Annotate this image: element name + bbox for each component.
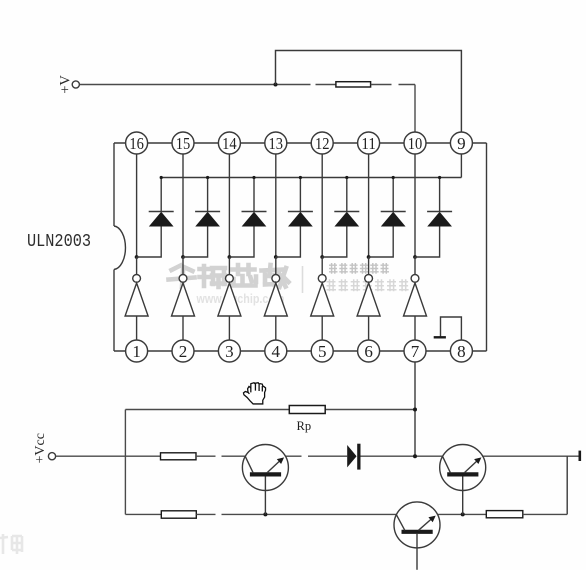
wire inverter input to pin ch7 — [414, 316, 416, 340]
inverter U3 triangle — [218, 283, 241, 316]
pin 13 — [265, 132, 287, 154]
pin 14 — [218, 132, 240, 154]
left vertical wire — [124, 410, 126, 515]
channel 3 pin drop wire — [228, 154, 230, 257]
svg-text:10: 10 — [408, 134, 423, 153]
svg-text:2: 2 — [179, 342, 188, 361]
watermark small caption 1 — [329, 263, 389, 274]
wire drop to pin 10 — [414, 85, 416, 133]
wire inverter input to pin ch3 — [228, 316, 230, 340]
svg-text:3: 3 — [225, 342, 234, 361]
middle rail: Vcc to R2 — [56, 455, 161, 457]
+Vcc terminal — [48, 453, 55, 460]
pin 7 — [404, 340, 426, 362]
diode D1 — [149, 178, 174, 227]
inverter U3 bubble — [226, 275, 234, 283]
inverter U6 bubble — [365, 275, 373, 283]
node junction ch6 — [367, 255, 371, 259]
transistor Q1 — [242, 445, 288, 515]
watermark bottom-left glyph — [0, 534, 22, 554]
bus junction dot ch7 — [438, 176, 441, 179]
watermark divider — [302, 266, 304, 293]
svg-text:8: 8 — [457, 342, 466, 361]
inverter U5 triangle — [311, 283, 334, 316]
svg-text:15: 15 — [176, 134, 191, 153]
bottom rail: R3 to Q3 — [196, 513, 215, 515]
IC notch — [114, 226, 125, 270]
wire pin 7 drop — [414, 362, 416, 456]
inverter U1 triangle — [125, 283, 148, 316]
wire jog to diode D5 — [322, 226, 347, 257]
resistor R3 — [161, 511, 196, 518]
wire inverter input to pin ch6 — [368, 316, 370, 340]
pin 11 — [358, 132, 380, 154]
inverter U7 bubble — [411, 275, 419, 283]
svg-text:16: 16 — [129, 134, 144, 153]
wire jog to diode D3 — [229, 226, 254, 257]
junction bottom rail / Q2 base — [461, 512, 465, 516]
svg-text:12: 12 — [315, 134, 330, 153]
+V terminal — [72, 81, 79, 88]
IC ULN2003 body outline — [114, 143, 487, 351]
bottom rail: R4 to right vertical — [523, 513, 567, 515]
junction bottom rail / Q1 base — [263, 512, 267, 516]
resistor R2 — [161, 453, 197, 460]
pin 2 — [172, 340, 194, 362]
svg-text:5: 5 — [318, 342, 327, 361]
inverter U1 bubble — [133, 275, 141, 283]
ground wire bracket pin 8 — [441, 317, 462, 340]
transistor Q2 — [440, 445, 486, 515]
node junction ch3 — [228, 255, 232, 259]
node junction ch1 — [135, 255, 139, 259]
svg-text:ULN2003: ULN2003 — [27, 231, 91, 252]
wire jog to diode D4 — [276, 226, 301, 257]
channel 2 pin drop wire — [182, 154, 184, 257]
channel 1 pin drop wire — [136, 154, 138, 257]
wire segment junction to resistor — [276, 84, 311, 86]
svg-text:13: 13 — [269, 134, 284, 153]
wire resistor to pin10 drop — [371, 84, 392, 86]
watermark brand glyphs — [169, 265, 289, 287]
bottom rail: Q3 to R4 — [437, 513, 486, 515]
inverter U6 triangle — [357, 283, 380, 316]
svg-text:4: 4 — [272, 342, 281, 361]
wire junction to inverter bubble ch2 — [182, 257, 184, 275]
bottom rail: left vertical to R3 — [125, 513, 161, 515]
right vertical wire — [566, 456, 568, 514]
bus junction dot ch3 — [252, 176, 255, 179]
diode D8 — [347, 444, 360, 470]
hand cursor — [243, 383, 265, 404]
svg-text:11: 11 — [361, 134, 376, 153]
wire inverter input to pin ch4 — [275, 316, 277, 340]
wire inverter input to pin ch5 — [321, 316, 323, 340]
diode D4 — [288, 178, 313, 227]
inverter U2 bubble — [179, 275, 187, 283]
pin 10 — [404, 132, 426, 154]
bus junction dot ch6 — [392, 176, 395, 179]
svg-text:9: 9 — [457, 134, 466, 153]
pin 8 — [450, 340, 472, 362]
svg-text:6: 6 — [364, 342, 373, 361]
pin 6 — [358, 340, 380, 362]
pin 12 — [311, 132, 333, 154]
wire bus to pin 9 — [460, 154, 462, 178]
junction at +V rail — [274, 83, 278, 87]
COM bus wire — [161, 177, 461, 179]
bus junction dot ch5 — [345, 176, 348, 179]
svg-text:14: 14 — [222, 134, 237, 153]
wire junction to inverter bubble ch1 — [136, 257, 138, 275]
diode D3 — [242, 178, 267, 227]
channel 4 pin drop wire — [275, 154, 277, 257]
wire junction to inverter bubble ch5 — [321, 257, 323, 275]
junction Rp rail / pin7 drop — [413, 408, 417, 412]
middle rail: D8 to junction to Q2 — [361, 455, 444, 457]
diode D2 — [195, 178, 220, 227]
diode D6 — [381, 178, 406, 227]
inverter U7 triangle — [404, 283, 427, 316]
pin 4 — [265, 340, 287, 362]
watermark small caption 2 — [327, 279, 409, 291]
inverter U4 triangle — [264, 283, 287, 316]
channel 5 pin drop wire — [321, 154, 323, 257]
wire inverter input to pin ch2 — [182, 316, 184, 340]
resistor R4 — [486, 511, 523, 518]
inverter U2 triangle — [172, 283, 195, 316]
wire jog to diode D2 — [183, 226, 208, 257]
pin 15 — [172, 132, 194, 154]
wire junction to inverter bubble ch4 — [275, 257, 277, 275]
pin 3 — [218, 340, 240, 362]
svg-text:1: 1 — [132, 342, 141, 361]
bus junction dot ch1 — [160, 176, 163, 179]
svg-text:+V: +V — [57, 75, 73, 94]
middle rail: Q2 to output terminal — [482, 455, 580, 457]
pin 1 — [126, 340, 148, 362]
middle rail: R2 to Q1 — [196, 455, 216, 457]
resistor R-top — [336, 82, 371, 87]
output terminal bar — [578, 451, 581, 461]
resistor Rp — [289, 406, 325, 414]
wire junction to inverter bubble ch6 — [368, 257, 370, 275]
node junction ch4 — [274, 255, 278, 259]
wire junction to inverter bubble ch7 — [414, 257, 416, 275]
inverter U4 bubble — [272, 275, 280, 283]
ground symbol — [434, 336, 446, 338]
wire +V to junction — [79, 84, 275, 86]
channel 7 pin drop wire — [414, 154, 416, 257]
wire inverter input to pin ch1 — [136, 316, 138, 340]
channel 6 pin drop wire — [368, 154, 370, 257]
wire jog to diode D6 — [369, 226, 394, 257]
node junction ch5 — [320, 255, 324, 259]
bus junction dot ch2 — [206, 176, 209, 179]
svg-text:+Vcc: +Vcc — [33, 433, 48, 463]
diode D5 — [334, 178, 359, 227]
transistor Q3 — [394, 502, 440, 570]
inverter U5 bubble — [318, 275, 326, 283]
pin 16 — [126, 132, 148, 154]
pin 5 — [311, 340, 333, 362]
junction middle rail / pin7 drop — [413, 454, 417, 458]
node junction ch7 — [413, 255, 417, 259]
wire loop up to pin 9 — [276, 51, 462, 133]
wire jog to diode D7 — [415, 226, 440, 257]
node junction ch2 — [181, 255, 185, 259]
middle rail: Q1 to D8 — [285, 455, 302, 457]
bus junction dot ch4 — [299, 176, 302, 179]
svg-text:Rp: Rp — [297, 419, 312, 433]
diode D7 — [427, 178, 452, 227]
pin 9 — [450, 132, 472, 154]
wire jog to diode D1 — [137, 226, 162, 257]
Rp rail wire — [125, 409, 289, 411]
svg-text:7: 7 — [411, 342, 420, 361]
wire junction to inverter bubble ch3 — [228, 257, 230, 275]
